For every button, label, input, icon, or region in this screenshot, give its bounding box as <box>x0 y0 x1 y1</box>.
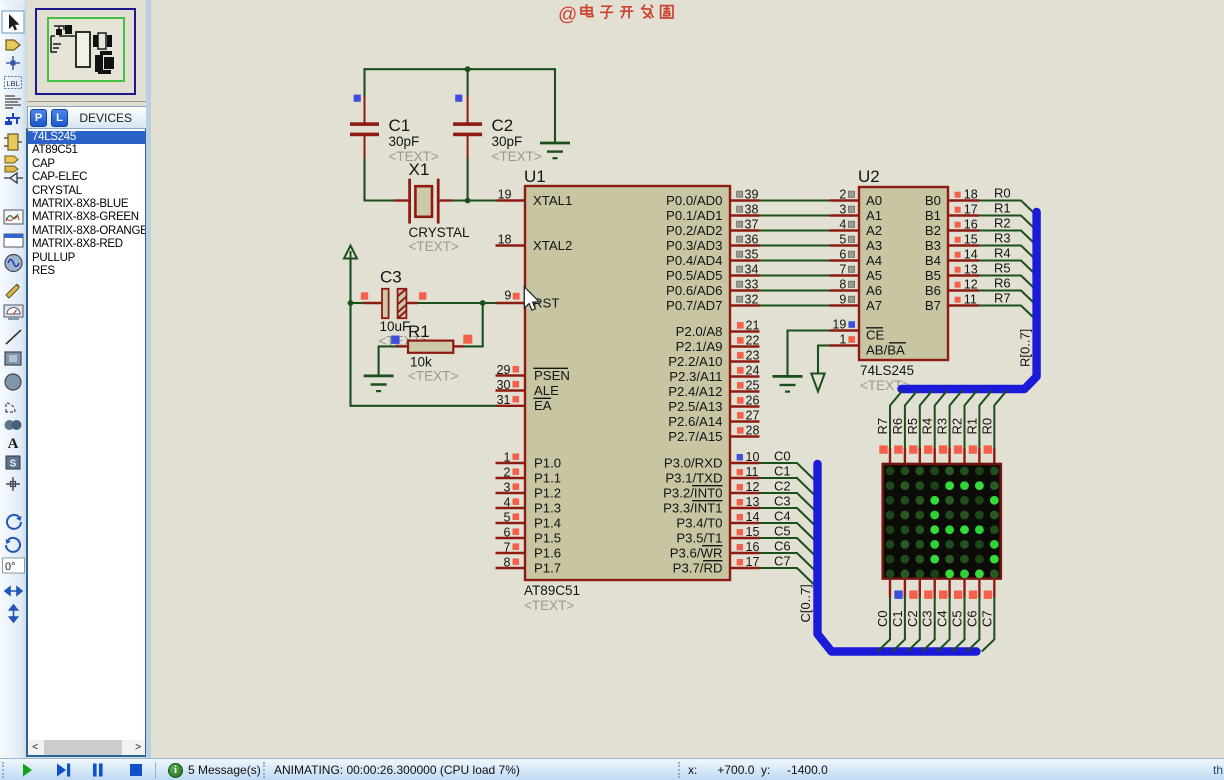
U1 left pin state squares <box>513 366 520 565</box>
svg-text:P2.1/A9: P2.1/A9 <box>676 339 723 354</box>
svg-text:P3.0/RXD: P3.0/RXD <box>664 456 723 471</box>
svg-text:A6: A6 <box>866 283 882 298</box>
svg-text:6: 6 <box>504 525 511 539</box>
svg-text:S: S <box>10 459 17 470</box>
wire crystal to XTAL1 <box>452 199 498 201</box>
svg-text:C6: C6 <box>774 538 791 553</box>
svg-text:13: 13 <box>746 495 760 509</box>
matrix top net labels R7-R0 <box>875 418 994 435</box>
U2 left pin numbers and squares <box>832 188 855 347</box>
svg-text:U2: U2 <box>858 167 880 186</box>
svg-text:9: 9 <box>504 288 511 302</box>
svg-text:<TEXT>: <TEXT> <box>524 598 574 613</box>
svg-text:16: 16 <box>964 218 978 232</box>
wire R1 to ground <box>378 346 380 375</box>
svg-text:C0: C0 <box>875 610 890 627</box>
svg-text:AB/BA: AB/BA <box>866 343 905 358</box>
svg-text:3: 3 <box>504 480 511 494</box>
net labels C0-C7 at U1 <box>774 448 791 568</box>
svg-text:P0.1/AD1: P0.1/AD1 <box>666 208 722 223</box>
svg-text:P0.5/AD5: P0.5/AD5 <box>666 268 722 283</box>
wire VCC vertical rail <box>349 259 351 407</box>
svg-text:R5: R5 <box>994 261 1011 276</box>
svg-text:PSEN: PSEN <box>534 368 570 383</box>
svg-text:LBL: LBL <box>6 79 19 88</box>
svg-text:R1: R1 <box>408 322 430 341</box>
svg-text:1: 1 <box>504 450 511 464</box>
svg-text:C3: C3 <box>920 610 935 627</box>
svg-text:11: 11 <box>746 465 759 479</box>
divider between panel and canvas <box>146 0 151 758</box>
svg-text:28: 28 <box>746 424 760 438</box>
svg-text:5: 5 <box>839 233 846 247</box>
svg-text:14: 14 <box>746 510 760 524</box>
svg-text:P3.5/T1: P3.5/T1 <box>676 531 722 546</box>
svg-text:15: 15 <box>746 525 760 539</box>
svg-text:CRYSTAL: CRYSTAL <box>409 225 471 240</box>
svg-text:13: 13 <box>964 263 978 277</box>
svg-text:P1.6: P1.6 <box>534 546 561 561</box>
generator mode <box>5 255 22 272</box>
XTAL1 input chevron <box>527 195 534 205</box>
svg-text:18: 18 <box>498 233 512 247</box>
svg-text:P3.7/RD: P3.7/RD <box>673 561 723 576</box>
message icon <box>168 763 183 778</box>
subcircuit mode <box>8 134 18 150</box>
svg-text:P0.4/AD4: P0.4/AD4 <box>666 253 722 268</box>
svg-text:R6: R6 <box>994 276 1011 291</box>
svg-text:P2.0/A8: P2.0/A8 <box>676 324 723 339</box>
red state square RST <box>513 293 520 300</box>
svg-text:P3.2/INT0: P3.2/INT0 <box>663 486 722 501</box>
pin C3 right <box>407 302 418 304</box>
svg-text:R4: R4 <box>920 418 935 435</box>
svg-text:A3: A3 <box>866 238 882 253</box>
svg-text:36: 36 <box>745 233 759 247</box>
svg-text:C6: C6 <box>964 610 979 627</box>
svg-text:P0.3/AD3: P0.3/AD3 <box>666 238 722 253</box>
svg-text:P3.6/WR: P3.6/WR <box>670 546 723 561</box>
LED matrix MATRIX-8X8-GREEN body <box>883 464 1001 579</box>
svg-text:10k: 10k <box>410 355 432 370</box>
power terminal VCC arrow <box>344 246 357 259</box>
wire CE to ground <box>788 329 830 331</box>
svg-text:37: 37 <box>745 218 759 232</box>
svg-text:C1: C1 <box>890 610 905 627</box>
svg-text:R[0..7]: R[0..7] <box>1018 329 1033 367</box>
U2 CE and BA overlines <box>866 327 883 329</box>
svg-text:P1.7: P1.7 <box>534 561 561 576</box>
svg-text:R1: R1 <box>994 201 1011 216</box>
svg-text:CE: CE <box>866 328 885 343</box>
svg-text:11: 11 <box>964 293 977 307</box>
component mode arrow <box>6 40 20 50</box>
svg-text:C4: C4 <box>935 610 950 627</box>
svg-text:@: @ <box>558 5 577 26</box>
svg-text:22: 22 <box>746 334 760 348</box>
horizontal scrollbar of list <box>28 740 145 755</box>
LED matrix dots <box>886 467 999 579</box>
svg-text:24: 24 <box>746 364 760 378</box>
svg-text:8: 8 <box>839 278 846 292</box>
svg-text:39: 39 <box>745 188 759 202</box>
devices header <box>27 106 148 129</box>
svg-text:3: 3 <box>839 203 846 217</box>
svg-text:C5: C5 <box>950 610 965 627</box>
svg-text:6: 6 <box>839 248 846 262</box>
rotate clockwise <box>7 515 21 529</box>
svg-text:74LS245: 74LS245 <box>860 363 914 378</box>
svg-text:R3: R3 <box>994 231 1011 246</box>
svg-text:A4: A4 <box>866 253 882 268</box>
IC U1 AT89C51 body <box>525 186 730 580</box>
svg-text:R4: R4 <box>994 246 1011 261</box>
svg-text:A7: A7 <box>866 298 882 313</box>
svg-text:P2.2/A10: P2.2/A10 <box>668 354 722 369</box>
svg-text:19: 19 <box>498 188 512 202</box>
voltage probe mode <box>6 285 19 298</box>
svg-text:C4: C4 <box>774 508 791 523</box>
2D line <box>6 330 21 344</box>
net labels R0-R7 at U2 <box>994 186 1011 306</box>
wires U1 P0 bus to U2 A pins <box>730 201 859 306</box>
schematic title annotation (drawn as strokes: @电子开发圈) <box>558 4 673 26</box>
origin marker <box>6 477 20 491</box>
junction dot mode <box>6 56 20 70</box>
svg-text:C1: C1 <box>389 116 411 135</box>
svg-text:29: 29 <box>497 363 511 377</box>
svg-text:7: 7 <box>839 263 846 277</box>
svg-text:B3: B3 <box>925 238 941 253</box>
svg-text:25: 25 <box>746 379 760 393</box>
pin R1 right <box>454 345 465 347</box>
grip <box>2 762 7 778</box>
svg-text:P1.3: P1.3 <box>534 501 561 516</box>
U1 left pin numbers <box>497 363 511 570</box>
svg-text:R0: R0 <box>979 418 994 435</box>
svg-text:12: 12 <box>746 480 760 494</box>
rotate anticlockwise <box>6 538 20 552</box>
svg-text:AT89C51: AT89C51 <box>524 583 580 598</box>
svg-text:B0: B0 <box>925 193 941 208</box>
pin C3 left <box>364 302 383 304</box>
svg-text:R7: R7 <box>994 291 1011 306</box>
junction C2 top <box>465 66 471 72</box>
2D closed path <box>5 420 15 430</box>
svg-text:7: 7 <box>504 540 511 554</box>
status bar <box>0 758 1224 780</box>
svg-text:10: 10 <box>746 450 760 464</box>
svg-text:C3: C3 <box>774 493 791 508</box>
red state square C3 right <box>419 292 426 299</box>
U1 P2 pin numbers and squares <box>737 319 759 438</box>
svg-text:12: 12 <box>964 278 978 292</box>
bus mode <box>6 113 20 124</box>
side panel area background <box>27 0 148 758</box>
svg-text:P2.4/A12: P2.4/A12 <box>668 384 722 399</box>
blue state square C2 <box>455 95 462 102</box>
matrix bottom net labels C0-C7 <box>875 610 994 627</box>
svg-text:2: 2 <box>839 188 846 202</box>
U1 left pin names <box>533 193 572 575</box>
wires U1 P3 to bus C[0..7] <box>730 463 816 586</box>
svg-text:C5: C5 <box>774 523 791 538</box>
svg-text:A5: A5 <box>866 268 882 283</box>
crystal X1 <box>410 179 439 224</box>
wire CE ground vertical <box>786 330 788 377</box>
svg-text:B4: B4 <box>925 253 941 268</box>
svg-text:34: 34 <box>745 263 759 277</box>
wire R1 right <box>463 345 483 347</box>
pin X1 left <box>394 199 409 201</box>
pin U1 XTAL2 stub <box>496 244 526 246</box>
wire C1 top vertical <box>363 68 365 96</box>
svg-text:XTAL2: XTAL2 <box>533 238 572 253</box>
svg-text:A1: A1 <box>866 208 882 223</box>
wire to ground top right <box>554 68 556 143</box>
pin U1 RST stub <box>497 302 526 304</box>
mouse cursor <box>524 287 539 310</box>
wire label mode <box>5 77 22 89</box>
svg-text:C0: C0 <box>774 448 791 463</box>
svg-text:4: 4 <box>839 218 846 232</box>
U1 P3 pin numbers and squares <box>737 450 760 569</box>
wire VCC to EA <box>351 405 498 407</box>
svg-text:16: 16 <box>746 540 760 554</box>
pin U2 CE stub <box>830 329 860 331</box>
svg-text:33: 33 <box>745 278 759 292</box>
2D box <box>5 352 21 365</box>
U1 EA overline <box>534 397 552 399</box>
wire C2 to crystal right junction <box>467 158 469 202</box>
svg-text:38: 38 <box>745 203 759 217</box>
svg-text:B2: B2 <box>925 223 941 238</box>
svg-text:R2: R2 <box>950 418 965 435</box>
U2 right pin numbers and squares <box>955 188 978 307</box>
svg-text:P0.7/AD7: P0.7/AD7 <box>666 298 722 313</box>
svg-text:P2.3/A11: P2.3/A11 <box>669 369 722 384</box>
svg-text:R1: R1 <box>964 418 979 435</box>
svg-text:10uF: 10uF <box>380 319 411 334</box>
device pin mode <box>4 173 23 183</box>
svg-text:A0: A0 <box>866 193 882 208</box>
svg-text:C7: C7 <box>774 553 791 568</box>
red state square R1 right <box>463 335 472 344</box>
U1 INT0 INT1 WR RD overlines <box>692 486 723 561</box>
svg-text:B6: B6 <box>925 283 941 298</box>
blue state square R1 left <box>391 336 399 344</box>
wires matrix bottom pins to bus C <box>878 579 995 652</box>
svg-text:R6: R6 <box>890 418 905 435</box>
svg-text:EA: EA <box>534 398 552 413</box>
svg-text:0°: 0° <box>5 561 16 573</box>
tape recorder mode <box>4 234 23 247</box>
pin U1 XTAL1 stub <box>497 199 526 201</box>
svg-text:C2: C2 <box>774 478 791 493</box>
IC U2 74LS245 body <box>859 187 948 360</box>
svg-text:P2.7/A15: P2.7/A15 <box>668 429 722 444</box>
svg-text:A: A <box>8 436 19 452</box>
svg-text:C2: C2 <box>905 610 920 627</box>
resistor R1 <box>408 341 453 353</box>
svg-text:P3.3/INT1: P3.3/INT1 <box>663 501 722 516</box>
capacitor C1 <box>350 96 379 158</box>
wire R1 left to ground corner <box>378 345 397 347</box>
ground near C2 <box>540 143 570 158</box>
junction crystal output <box>465 198 471 204</box>
red state square C3 left <box>361 292 368 299</box>
svg-text:C3: C3 <box>380 268 402 287</box>
svg-text:4: 4 <box>504 495 511 509</box>
svg-text:R7: R7 <box>875 418 890 435</box>
svg-text:18: 18 <box>964 188 978 202</box>
virtual instruments mode <box>4 305 23 317</box>
wire crystal left horizontal <box>365 199 396 201</box>
ground near U2 CE <box>773 376 803 391</box>
svg-text:XTAL1: XTAL1 <box>533 193 572 208</box>
svg-text:ALE: ALE <box>534 383 559 398</box>
svg-text:P1.0: P1.0 <box>534 456 561 471</box>
svg-text:17: 17 <box>746 555 760 569</box>
ground arrow terminal AB/BA <box>811 374 824 392</box>
x-mirror <box>5 587 22 595</box>
junction VCC-C3 <box>348 300 354 306</box>
U1 PSEN overline <box>534 367 569 369</box>
matrix bottom pin state squares <box>894 591 992 599</box>
svg-text:X1: X1 <box>409 160 430 179</box>
U1 right pin names <box>663 193 722 575</box>
U1 P1 and control pin stubs <box>496 376 526 569</box>
pin R1 left <box>396 345 408 347</box>
selection pointer tool (active) <box>2 11 24 33</box>
pin X1 right <box>439 199 452 201</box>
2D symbol <box>6 456 20 469</box>
matrix top pin state squares <box>879 445 992 453</box>
wire VCC to C3 <box>351 302 365 304</box>
pin U1 EA stub <box>497 405 526 407</box>
svg-text:B5: B5 <box>925 268 941 283</box>
bus R[0..7] <box>902 212 1037 389</box>
svg-text:9: 9 <box>839 293 846 307</box>
svg-text:P1.2: P1.2 <box>534 486 561 501</box>
svg-text:P3.1/TXD: P3.1/TXD <box>665 471 722 486</box>
wire C1-C2-GND top net <box>364 68 555 70</box>
bus C[0..7] <box>818 464 977 652</box>
devices list <box>26 128 147 757</box>
wire C1 to crystal left <box>363 158 365 202</box>
overview / world view panel <box>27 0 146 102</box>
left icon toolbar <box>0 0 28 758</box>
svg-text:P0.6/AD6: P0.6/AD6 <box>666 283 722 298</box>
wire ABBA vertical <box>817 345 819 374</box>
angle box <box>3 558 25 573</box>
wires U2 B pins to bus R[0..7] <box>948 201 1035 320</box>
ground under R1 <box>364 376 394 391</box>
svg-text:R3: R3 <box>935 418 950 435</box>
svg-text:C7: C7 <box>979 610 994 627</box>
svg-text:<TEXT>: <TEXT> <box>409 239 459 254</box>
svg-text:P3.4/T0: P3.4/T0 <box>676 516 722 531</box>
junction RST node <box>480 300 486 306</box>
play <box>20 762 160 779</box>
svg-text:A2: A2 <box>866 223 882 238</box>
pin U2 ABBA stub <box>830 344 860 346</box>
wires bus R to matrix top pins <box>890 391 1007 466</box>
svg-text:5: 5 <box>504 510 511 524</box>
svg-text:21: 21 <box>746 319 760 333</box>
svg-text:<TEXT>: <TEXT> <box>408 369 458 384</box>
svg-text:27: 27 <box>746 409 760 423</box>
svg-text:P2.5/A13: P2.5/A13 <box>668 399 722 414</box>
wire C3 to RST <box>418 302 498 304</box>
svg-text:<TEXT>: <TEXT> <box>492 149 542 164</box>
svg-text:30pF: 30pF <box>389 134 420 149</box>
svg-text:P0.0/AD0: P0.0/AD0 <box>666 193 722 208</box>
svg-text:R0: R0 <box>994 186 1011 201</box>
text script mode <box>5 96 21 108</box>
svg-text:B7: B7 <box>925 298 941 313</box>
blue state square C1 <box>354 95 361 102</box>
svg-text:30pF: 30pF <box>492 134 523 149</box>
svg-text:26: 26 <box>746 394 760 408</box>
svg-text:8: 8 <box>504 555 511 569</box>
svg-text:C2: C2 <box>492 116 514 135</box>
wire ABBA <box>818 344 830 346</box>
svg-text:2: 2 <box>504 465 511 479</box>
svg-text:32: 32 <box>745 293 759 307</box>
svg-text:R5: R5 <box>905 418 920 435</box>
U2 pin names <box>866 193 941 358</box>
svg-text:35: 35 <box>745 248 759 262</box>
capacitor C3 (electrolytic) <box>382 289 406 318</box>
svg-text:P0.2/AD2: P0.2/AD2 <box>666 223 722 238</box>
svg-text:23: 23 <box>746 349 760 363</box>
svg-text:17: 17 <box>964 203 978 217</box>
svg-text:P2.6/A14: P2.6/A14 <box>668 414 722 429</box>
svg-text:RST: RST <box>533 296 559 311</box>
wire RST node down to R1 <box>482 303 484 347</box>
graph mode <box>4 210 23 224</box>
svg-text:C[0..7]: C[0..7] <box>798 584 813 622</box>
svg-text:14: 14 <box>964 248 978 262</box>
y-mirror <box>10 605 18 622</box>
U1 P2 pin stubs <box>730 332 760 437</box>
2D arc <box>6 403 15 412</box>
svg-text:15: 15 <box>964 233 978 247</box>
svg-text:P1.5: P1.5 <box>534 531 561 546</box>
svg-text:P1.4: P1.4 <box>534 516 561 531</box>
svg-text:B1: B1 <box>925 208 941 223</box>
terminals mode <box>5 156 18 163</box>
wire C2 top vertical <box>467 68 469 96</box>
svg-text:31: 31 <box>497 393 511 407</box>
capacitor C2 <box>453 96 482 158</box>
svg-text:U1: U1 <box>524 167 546 186</box>
svg-text:R2: R2 <box>994 216 1011 231</box>
svg-text:30: 30 <box>497 378 511 392</box>
U1 P0 pin numbers and squares <box>737 188 759 307</box>
svg-text:P1.1: P1.1 <box>534 471 561 486</box>
svg-text:C1: C1 <box>774 463 791 478</box>
2D circle <box>5 374 21 390</box>
